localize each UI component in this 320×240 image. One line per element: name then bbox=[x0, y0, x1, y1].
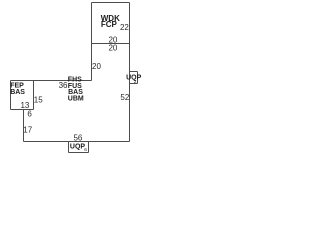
svg-text:2: 2 bbox=[134, 79, 137, 85]
svg-text:BAS: BAS bbox=[10, 89, 25, 96]
wall: tower top edge bbox=[92, 2, 130, 4]
svg-text:36: 36 bbox=[59, 81, 68, 90]
wall: FEP right side bbox=[33, 81, 35, 110]
svg-text:56: 56 bbox=[73, 133, 82, 142]
wall: FEP left side bbox=[10, 81, 12, 110]
svg-text:17: 17 bbox=[23, 126, 32, 135]
svg-text:52: 52 bbox=[120, 93, 129, 102]
wall: left side lower bbox=[23, 110, 25, 142]
wall: bottom bump left side bbox=[68, 142, 70, 153]
wall: main top edge bbox=[11, 80, 92, 82]
svg-text:UQP: UQP bbox=[70, 143, 86, 150]
wall: right side full height bbox=[129, 3, 131, 142]
wall: right bump top edge bbox=[130, 71, 138, 73]
wall: main bottom edge bbox=[24, 141, 130, 143]
wall: right bump bottom edge bbox=[130, 83, 138, 85]
svg-text:6: 6 bbox=[27, 109, 32, 118]
wall: tower left side bbox=[91, 3, 93, 81]
svg-text:FCP: FCP bbox=[101, 20, 118, 29]
svg-text:20: 20 bbox=[108, 43, 117, 52]
wall: WDK/FCP divider bbox=[92, 43, 130, 45]
svg-text:22: 22 bbox=[120, 23, 129, 32]
wall: right bump right side bbox=[137, 72, 139, 84]
svg-text:6: 6 bbox=[84, 147, 87, 153]
wall: bottom bump bottom edge bbox=[69, 152, 89, 154]
wall: FEP bottom edge bbox=[11, 109, 34, 111]
svg-text:15: 15 bbox=[34, 95, 43, 104]
svg-text:UBM: UBM bbox=[68, 96, 84, 103]
svg-text:20: 20 bbox=[92, 62, 101, 71]
wall: bottom bump right side bbox=[88, 142, 90, 153]
